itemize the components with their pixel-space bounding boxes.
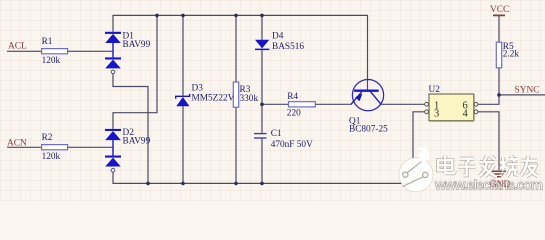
- svg-text:R1: R1: [42, 37, 53, 47]
- svg-text:MM5Z22V: MM5Z22V: [192, 94, 235, 104]
- svg-text:BC807-25: BC807-25: [349, 125, 388, 135]
- svg-text:R2: R2: [42, 133, 53, 143]
- svg-text:470nF 50V: 470nF 50V: [271, 140, 313, 150]
- svg-text:120k: 120k: [42, 56, 61, 66]
- svg-text:BAV99: BAV99: [123, 137, 151, 147]
- svg-text:2.2k: 2.2k: [503, 50, 520, 60]
- svg-text:R4: R4: [287, 92, 298, 102]
- svg-text:C1: C1: [271, 129, 282, 139]
- svg-text:BAS516: BAS516: [272, 42, 304, 52]
- svg-text:ACL: ACL: [8, 41, 27, 51]
- svg-text:BAV99: BAV99: [123, 40, 151, 50]
- svg-text:330k: 330k: [240, 94, 259, 104]
- svg-text:VCC: VCC: [490, 5, 509, 15]
- svg-text:GND: GND: [490, 180, 511, 190]
- svg-text:ACN: ACN: [7, 139, 27, 149]
- svg-text:120k: 120k: [42, 152, 61, 162]
- svg-text:U2: U2: [429, 85, 441, 95]
- svg-text:3: 3: [434, 108, 439, 119]
- svg-text:4: 4: [463, 108, 469, 119]
- svg-text:D3: D3: [192, 84, 204, 94]
- svg-text:220: 220: [287, 108, 301, 118]
- svg-text:www.elecfans.com: www.elecfans.com: [434, 177, 543, 193]
- svg-text:D4: D4: [272, 32, 284, 42]
- svg-text:SYNC: SYNC: [515, 86, 540, 96]
